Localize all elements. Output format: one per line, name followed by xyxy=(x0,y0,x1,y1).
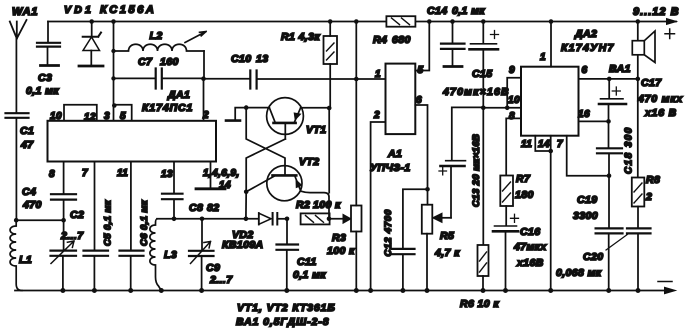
wire A1 pin 5 to supply xyxy=(415,22,429,71)
ground for VD1 xyxy=(79,65,103,68)
wire R8 branch down xyxy=(637,79,639,178)
svg-text:11: 11 xyxy=(117,168,128,179)
svg-text:13: 13 xyxy=(161,169,173,180)
ground stub near VT1 xyxy=(235,108,246,120)
svg-text:470мк×16В: 470мк×16В xyxy=(442,86,510,98)
node C8 bottom xyxy=(172,217,177,222)
capacitor C20 xyxy=(556,207,651,291)
resistor R1 4.3k xyxy=(281,22,337,193)
ground for C3 xyxy=(41,64,59,67)
svg-text:C15: C15 xyxy=(472,68,492,80)
svg-text:2...7: 2...7 xyxy=(60,230,84,242)
svg-text:ВА1 0,5ГДШ-2-8: ВА1 0,5ГДШ-2-8 xyxy=(236,316,329,328)
svg-text:9...12 В: 9...12 В xyxy=(633,6,680,18)
wire L3/C9/VD2 row xyxy=(157,218,259,220)
svg-text:R2: R2 xyxy=(296,199,310,211)
svg-text:0,1 мк: 0,1 мк xyxy=(452,5,485,17)
svg-text:УПЧЗ-1: УПЧЗ-1 xyxy=(370,162,411,174)
capacitor C19 xyxy=(573,176,623,291)
svg-text:L2: L2 xyxy=(150,30,163,42)
svg-text:WA1: WA1 xyxy=(12,6,38,18)
svg-text:C17: C17 xyxy=(641,77,662,89)
node speaker/R8 branch xyxy=(636,77,641,82)
svg-text:10: 10 xyxy=(50,111,62,122)
node tuning line crosses input wire xyxy=(354,77,359,82)
node pin14 at bus xyxy=(548,288,553,293)
wire DA1 pin 7 down xyxy=(94,162,96,251)
svg-text:2...7: 2...7 xyxy=(209,274,233,286)
wire R2 to R3 wiper with arrow xyxy=(330,218,344,220)
capacitor C18 xyxy=(597,121,635,175)
capacitor C14 xyxy=(427,5,485,65)
svg-text:C9: C9 xyxy=(206,262,220,274)
capacitor C6 xyxy=(120,199,151,290)
wire DA2 pin 10 xyxy=(483,107,521,109)
node C9 top xyxy=(200,217,205,222)
wire DA2 pin 6 xyxy=(579,78,610,80)
svg-text:470: 470 xyxy=(22,199,42,211)
capacitor C7 xyxy=(114,56,204,89)
wire VT2 collector node down to varicap row xyxy=(245,192,247,219)
svg-text:7: 7 xyxy=(557,139,563,150)
caption transistor and speaker types xyxy=(236,302,336,328)
capacitor C17 electrolytic xyxy=(599,77,683,121)
svg-text:0,1 мк: 0,1 мк xyxy=(26,85,59,97)
zener diode VD1 КС156А xyxy=(64,4,156,65)
wire VT1 collector to left node xyxy=(246,107,269,109)
svg-text:R7: R7 xyxy=(516,173,531,185)
capacitor C11 xyxy=(277,219,327,291)
node VD2 cathode / C11 / R2 xyxy=(285,217,290,222)
node C15 at bus xyxy=(481,19,486,24)
node C16 at bus xyxy=(503,288,508,293)
svg-text:VD1: VD1 xyxy=(64,4,94,16)
node tuning line at bus xyxy=(354,19,359,24)
svg-text:10: 10 xyxy=(508,95,520,106)
wire DA1 pin 8 down xyxy=(63,162,65,194)
svg-text:3: 3 xyxy=(104,111,110,122)
capacitor C4 xyxy=(22,186,76,220)
svg-text:14: 14 xyxy=(538,139,550,150)
capacitor C15 electrolytic xyxy=(442,22,510,108)
svg-text:7: 7 xyxy=(82,168,88,179)
svg-text:11: 11 xyxy=(521,139,532,150)
svg-text:L3: L3 xyxy=(164,249,177,261)
svg-text:R6 10 к: R6 10 к xyxy=(460,298,499,310)
svg-text:С5 0,1 мк: С5 0,1 мк xyxy=(103,199,114,246)
svg-text:L1: L1 xyxy=(19,254,32,266)
svg-text:100 к: 100 к xyxy=(327,245,355,257)
resistor R8 2 xyxy=(632,174,660,207)
wire VT2 emitter to R2 right node xyxy=(301,191,329,219)
svg-text:2: 2 xyxy=(645,191,652,203)
node VT1 emitter / R1 xyxy=(327,106,332,111)
ground for C14 xyxy=(444,65,462,68)
DA1 pins 3-5 jumper xyxy=(104,105,132,122)
svg-text:C16: C16 xyxy=(520,226,540,238)
svg-text:C14: C14 xyxy=(427,5,447,17)
svg-text:R3: R3 xyxy=(332,232,346,244)
svg-text:8: 8 xyxy=(49,169,55,180)
svg-text:3300: 3300 xyxy=(573,210,598,222)
svg-text:С18 300: С18 300 xyxy=(624,126,635,174)
svg-text:180: 180 xyxy=(515,189,534,201)
svg-text:А1: А1 xyxy=(387,148,402,160)
svg-text:ВА1: ВА1 xyxy=(609,63,631,75)
node R2 right / emitter line xyxy=(327,217,332,222)
svg-text:C11: C11 xyxy=(297,256,317,268)
supply terminal +9..12V arrow xyxy=(633,6,680,39)
svg-text:C7: C7 xyxy=(138,56,153,68)
transistor VT2 xyxy=(246,156,319,201)
antenna WA1 xyxy=(10,6,38,39)
potentiometer R5 4.7k xyxy=(422,189,460,290)
variable capacitor C9 xyxy=(189,219,233,291)
node VT1 collector / stub xyxy=(244,105,249,110)
svg-text:160: 160 xyxy=(160,56,179,68)
svg-text:2: 2 xyxy=(202,110,209,121)
wire DA2 pin 7 xyxy=(567,136,609,176)
svg-text:100 к: 100 к xyxy=(313,199,341,211)
wire tuning line from bus xyxy=(355,22,357,80)
svg-text:R1 4,3к: R1 4,3к xyxy=(281,31,320,43)
node C9 at bus xyxy=(199,288,204,293)
svg-text:С13 20 мк×16В: С13 20 мк×16В xyxy=(471,134,482,207)
node L3 at bus xyxy=(159,288,164,293)
svg-text:КС156А: КС156А xyxy=(100,4,156,16)
node A1 pin5 at bus xyxy=(427,19,432,24)
capacitor C5 xyxy=(84,199,114,290)
wire antenna lead xyxy=(15,39,17,113)
svg-text:12: 12 xyxy=(84,112,96,123)
node pin6/BA1/C17 xyxy=(607,77,612,82)
node pin14 jumper bottom xyxy=(548,149,553,154)
svg-text:47мкх: 47мкх xyxy=(513,241,547,253)
svg-text:C1: C1 xyxy=(20,125,34,137)
inductor L2 tunable xyxy=(114,30,207,51)
node C14 at bus xyxy=(450,19,455,24)
varicap diode VD2 КВ109А xyxy=(222,213,287,251)
wire bottom ground bus xyxy=(15,290,666,292)
node C19 at bus xyxy=(606,288,611,293)
wire DA1 pins 1,4,6,9,14 to ground xyxy=(210,162,212,188)
wire A1 pin 2 to ground bus xyxy=(371,122,386,291)
resistor R7 180 xyxy=(500,173,533,206)
svg-text:C2: C2 xyxy=(70,209,84,221)
capacitor C8 xyxy=(162,194,219,219)
svg-text:1,4,6,9,: 1,4,6,9, xyxy=(203,168,240,179)
wire pin6 node to speaker branch xyxy=(609,78,638,80)
wire DA2 pin 9 xyxy=(507,78,521,108)
inductor L3 xyxy=(150,219,177,291)
svg-text:2: 2 xyxy=(373,110,380,121)
svg-text:VT2: VT2 xyxy=(299,156,319,168)
node R5 at bus xyxy=(425,288,430,293)
wire C1 to L1 node xyxy=(15,119,17,221)
DA2 pins 11-14 jumper xyxy=(521,136,563,151)
node L2 left xyxy=(111,49,115,53)
wire DA2 pin 8 to R7 xyxy=(506,118,521,175)
svg-text:47: 47 xyxy=(20,139,34,151)
capacitor C3 xyxy=(26,22,60,98)
node C15/C13/pin10 xyxy=(481,106,486,111)
svg-text:R8: R8 xyxy=(646,174,660,186)
wire DA1 pin 11 down xyxy=(130,162,132,251)
wire pin 14 to ground bus xyxy=(550,151,552,291)
svg-text:8: 8 xyxy=(509,111,515,122)
node C5 at bus xyxy=(92,288,97,293)
capacitor C13 electrolytic xyxy=(439,107,484,217)
wire L2 right down to DA1 pin 2 xyxy=(203,51,206,121)
wire DA2 pin 16 xyxy=(579,120,609,122)
svg-text:КВ109А: КВ109А xyxy=(222,239,264,251)
node VT2 collector xyxy=(244,190,249,195)
svg-text:13: 13 xyxy=(256,53,268,65)
wire L2/C7 left vertical from bus to DA1 pins 3,5 xyxy=(113,22,115,105)
node DA1 pin3/5 top xyxy=(112,103,117,108)
svg-text:VT1: VT1 xyxy=(306,124,326,136)
inductor L1 xyxy=(10,222,32,291)
resistor R6 10k xyxy=(460,245,499,310)
wire top supply bus xyxy=(48,21,676,23)
node C6 at bus xyxy=(128,288,133,293)
node C7/C10/L2 right xyxy=(201,76,206,81)
IC A1 УПЧЗ-1 xyxy=(370,64,424,174)
svg-text:16: 16 xyxy=(578,109,590,120)
node L2 line at bus xyxy=(111,19,116,24)
DA1 pin labels bottom xyxy=(49,168,240,191)
svg-text:82: 82 xyxy=(207,202,219,214)
svg-text:К174УН7: К174УН7 xyxy=(561,42,615,54)
svg-text:С12 4700: С12 4700 xyxy=(383,209,394,257)
node BA1 at bus xyxy=(636,19,641,24)
svg-text:C10: C10 xyxy=(231,53,251,65)
svg-text:4,7 к: 4,7 к xyxy=(434,247,460,259)
svg-text:х16В: х16В xyxy=(516,257,544,269)
svg-text:C3: C3 xyxy=(38,72,52,84)
svg-text:х16 В: х16 В xyxy=(644,107,677,119)
cross-coupling wires VT1/VT2 xyxy=(246,108,285,174)
svg-text:5: 5 xyxy=(120,111,126,122)
node antenna/L1/C4 junction xyxy=(14,218,19,223)
svg-text:ДА2: ДА2 xyxy=(574,28,597,40)
node VD1 top xyxy=(89,19,94,24)
svg-text:C19: C19 xyxy=(577,194,597,206)
node VD2 anode xyxy=(244,217,249,222)
wire node to C2 line xyxy=(16,219,63,221)
node pin9/pin10 xyxy=(505,106,510,111)
node C20 at bus xyxy=(636,288,641,293)
node R3 at bus xyxy=(354,288,359,293)
svg-text:С6 0,1 мк: С6 0,1 мк xyxy=(139,199,150,246)
node C4/C2 junction xyxy=(61,218,66,223)
node C7 left xyxy=(111,76,115,80)
DA1 pins 10-12 jumper xyxy=(50,105,97,123)
transistor VT1 xyxy=(267,98,327,139)
ground for DA1 xyxy=(196,187,225,190)
svg-text:470 мкх: 470 мкх xyxy=(637,93,683,105)
capacitor C1 xyxy=(6,113,35,151)
node C2 at bus xyxy=(60,288,65,293)
svg-text:6: 6 xyxy=(582,65,588,76)
resistor R2 100k xyxy=(296,199,341,224)
wire VT1 emitter to R1 line xyxy=(301,107,330,109)
svg-text:1: 1 xyxy=(375,69,381,80)
potentiometer R3 100k xyxy=(327,79,362,291)
node R6 at bus xyxy=(481,288,486,293)
wire DA2 pin 1 to supply xyxy=(550,22,552,67)
svg-text:680: 680 xyxy=(392,34,411,46)
node C12 at bus xyxy=(400,288,405,293)
svg-text:C8: C8 xyxy=(189,202,203,214)
node A1 pin2 at bus xyxy=(368,288,373,293)
svg-text:C20: C20 xyxy=(583,251,603,263)
node C11 at bus xyxy=(284,288,289,293)
svg-text:9: 9 xyxy=(509,65,515,76)
svg-text:C4: C4 xyxy=(22,186,36,198)
variable capacitor C2 xyxy=(51,209,85,291)
node pin6/R5/C12 xyxy=(425,187,430,192)
svg-text:VT1, VT2 КТ361Б: VT1, VT2 КТ361Б xyxy=(237,302,336,314)
wire A1 pin 6 output xyxy=(415,105,427,189)
speaker BA1 xyxy=(609,22,655,79)
svg-text:1: 1 xyxy=(540,52,546,63)
svg-text:ДА1: ДА1 xyxy=(167,89,190,101)
wire C15 line down to R6 xyxy=(482,108,484,245)
IC DA2 К174УН7 body xyxy=(521,28,615,136)
node C18/pin7/C19 xyxy=(607,173,612,178)
capacitor C12 xyxy=(383,189,428,290)
svg-text:К174ПС1: К174ПС1 xyxy=(142,102,193,114)
svg-text:R5: R5 xyxy=(440,230,454,242)
capacitor C16 electrolytic xyxy=(493,206,547,291)
node C17/pin16/C18 xyxy=(606,119,611,124)
IC DA1 К174ПС1 body xyxy=(48,89,217,162)
capacitor C10 xyxy=(204,53,386,89)
svg-text:R4: R4 xyxy=(373,34,387,46)
svg-text:0,068 мк: 0,068 мк xyxy=(556,267,602,279)
node DA2 pin1 at bus xyxy=(549,19,554,24)
svg-text:0,1 мк: 0,1 мк xyxy=(293,269,326,281)
resistor R4 680 xyxy=(373,16,415,46)
node R1 at bus xyxy=(328,19,333,24)
wire DA1 pin 13 down xyxy=(173,162,175,194)
negative terminal arrow xyxy=(658,282,676,294)
